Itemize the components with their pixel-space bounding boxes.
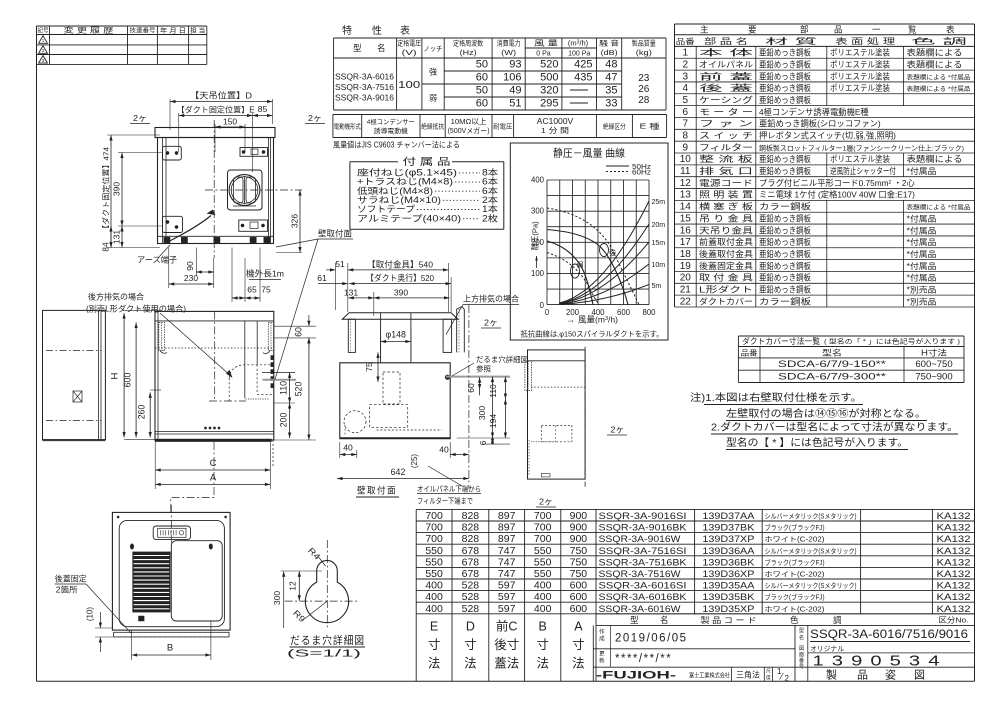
svg-text:E: E [430, 620, 438, 634]
svg-text:注)1.本図は右壁取付仕様を示す。: 注)1.本図は右壁取付仕様を示す。 [690, 391, 862, 404]
svg-text:61: 61 [317, 273, 327, 283]
svg-text:要: 要 [748, 24, 757, 34]
svg-text:フィルター下端まで: フィルター下端まで [417, 496, 473, 506]
svg-text:700: 700 [425, 533, 443, 545]
svg-text:320: 320 [540, 85, 558, 97]
bracket screws [130, 544, 134, 550]
svg-text:B: B [167, 643, 173, 654]
svg-text:蓋法: 蓋法 [494, 657, 519, 671]
svg-text:法: 法 [536, 657, 549, 671]
svg-text:風量(m3/h): 風量(m3/h) [578, 315, 618, 325]
svg-text:富士工業株式会社: 富士工業株式会社 [689, 672, 730, 680]
vertical centerline [213, 120, 215, 258]
svg-text:678: 678 [462, 556, 480, 568]
switch box [153, 526, 190, 540]
svg-text:寸: 寸 [464, 638, 477, 652]
svg-text:電動機形式: 電動機形式 [334, 122, 362, 131]
svg-text:2ヶ: 2ヶ [484, 318, 498, 328]
svg-text:400: 400 [534, 580, 552, 592]
horizontal centerline through duct [205, 189, 302, 191]
svg-text:139D37BK: 139D37BK [702, 523, 755, 534]
vertical size-label cells [415, 614, 417, 682]
svg-text:2ヶ: 2ヶ [539, 497, 553, 507]
svg-text:200: 200 [279, 413, 289, 428]
svg-text:93: 93 [509, 59, 521, 71]
svg-text:ダクトカバー: ダクトカバー [699, 296, 753, 306]
svg-text:排 気 口: 排 気 口 [699, 166, 753, 176]
svg-text:ス イ ッ チ: ス イ ッ チ [699, 131, 753, 141]
svg-text:寸: 寸 [536, 638, 549, 652]
svg-text:C: C [210, 458, 217, 469]
dim 65 75 [231, 248, 233, 303]
svg-text:4極コンデンサ誘導電動機E種: 4極コンデンサ誘導電動機E種 [759, 107, 869, 117]
svg-text:*別売品: *別売品 [907, 296, 937, 306]
svg-text:65: 65 [247, 285, 257, 295]
svg-text:吊 り 金 具: 吊 り 金 具 [699, 213, 753, 223]
side view of hood [317, 259, 528, 506]
svg-text:14: 14 [680, 202, 692, 213]
svg-text:1: 1 [683, 48, 689, 59]
dim 6 wall [457, 437, 510, 439]
svg-text:絶縁抵抗: 絶縁抵抗 [421, 122, 445, 131]
drawing frame right border [974, 24, 976, 681]
svg-text:表題欄による *付属品: 表題欄による *付属品 [907, 85, 971, 93]
svg-text:オイルパネル下端から: オイルパネル下端から [417, 484, 481, 494]
svg-text:131: 131 [344, 288, 358, 298]
svg-text:シルバーメタリック(Sメタリック): シルバーメタリック(Sメタリック) [765, 581, 857, 590]
svg-text:60: 60 [466, 383, 476, 393]
svg-text:整 流 板: 整 流 板 [699, 154, 754, 164]
svg-text:取 付 金 具: 取 付 金 具 [699, 273, 753, 283]
svg-text:528: 528 [462, 603, 480, 615]
svg-text:前 蓋: 前 蓋 [699, 71, 753, 81]
dim C [154, 442, 156, 475]
svg-text:ポリエステル塗装: ポリエステル塗装 [830, 48, 890, 58]
svg-text:150: 150 [223, 117, 237, 127]
svg-text:8: 8 [683, 131, 689, 142]
svg-text:0 Pa: 0 Pa [536, 51, 551, 58]
svg-text:*付属品: *付属品 [907, 237, 937, 247]
svg-text:139D36AA: 139D36AA [702, 546, 755, 557]
earth wire [166, 216, 211, 244]
svg-text:SDCA-6/7/9-150**: SDCA-6/7/9-150** [778, 359, 886, 370]
svg-text:更: 更 [599, 651, 605, 658]
bottom thick edge [340, 437, 450, 439]
svg-text:2019/06/05: 2019/06/05 [615, 633, 688, 645]
svg-text:48: 48 [605, 59, 617, 71]
dim phi148 [380, 330, 382, 360]
svg-text:区分No.: 区分No. [939, 615, 969, 624]
svg-text:75: 75 [364, 362, 374, 372]
svg-text:騒 音: 騒 音 [599, 39, 619, 48]
dim 600 [135, 323, 137, 438]
svg-text:4: 4 [683, 83, 689, 94]
svg-text:642: 642 [391, 467, 406, 477]
svg-text:【取付金具】540: 【取付金具】540 [367, 259, 433, 269]
svg-text:図: 図 [799, 645, 804, 652]
svg-text:5: 5 [683, 95, 689, 106]
svg-text:H: H [110, 372, 121, 379]
svg-text:H寸法: H寸法 [921, 347, 947, 357]
svg-text:(Hz): (Hz) [460, 50, 477, 57]
svg-text:プラグ付ビニル平形コード0.75mm2 ・2心: プラグ付ビニル平形コード0.75mm2 ・2心 [759, 178, 916, 188]
svg-text:435: 435 [574, 72, 592, 84]
bottom plate lines [158, 235, 274, 237]
svg-text:528: 528 [462, 591, 480, 603]
svg-text:ブラック(ブラックFJ): ブラック(ブラックFJ) [765, 593, 825, 602]
svg-text:後方排気の場合: 後方排気の場合 [88, 292, 144, 302]
dim 40 right [449, 442, 451, 458]
svg-text:亜鉛めっき鋼板: 亜鉛めっき鋼板 [759, 154, 812, 164]
upper hanger brackets [163, 146, 182, 160]
dim A [154, 475, 156, 489]
svg-text:カラー鋼板: カラー鋼板 [759, 296, 812, 306]
svg-text:49: 49 [509, 85, 521, 97]
svg-text:139D37XP: 139D37XP [702, 534, 754, 545]
svg-text:(10): (10) [86, 607, 95, 622]
daruma hole mark on bracket [445, 375, 449, 379]
svg-text:2.ダクトカバーは型名によって寸法が異なります。: 2.ダクトカバーは型名によって寸法が異なります。 [711, 421, 958, 434]
left dim 474 [107, 134, 160, 136]
dotted wall below [272, 440, 274, 468]
wall dashdot right view [584, 347, 586, 487]
drawing frame bottom border [37, 680, 975, 682]
bottom dimension table [416, 509, 974, 681]
hidden rear-exhaust elbow dashed [228, 378, 230, 401]
svg-text:作: 作 [599, 628, 605, 636]
dim 642 [337, 478, 469, 480]
svg-text:弱: 弱 [577, 261, 584, 269]
svg-text:****/**/**: ****/**/** [615, 653, 672, 665]
main parts list table [675, 24, 975, 307]
svg-text:2: 2 [683, 59, 689, 70]
svg-text:194: 194 [488, 414, 498, 428]
svg-text:だるま穴詳細図: だるま穴詳細図 [290, 633, 365, 647]
svg-text:15m: 15m [652, 240, 666, 247]
svg-text:597: 597 [498, 603, 516, 615]
svg-text:( 型名の「 * 」には色記号が入ります ): ( 型名の「 * 」には色記号が入ります ) [824, 337, 960, 346]
svg-text:材 質: 材 質 [765, 36, 817, 46]
svg-text:*付属品: *付属品 [907, 213, 937, 223]
svg-text:本 体: 本 体 [699, 48, 755, 58]
svg-text:678: 678 [462, 568, 480, 580]
svg-text:後蓋固定: 後蓋固定 [55, 574, 87, 584]
svg-text:390: 390 [112, 182, 122, 196]
svg-text:ホワイト(C-202): ホワイト(C-202) [765, 571, 825, 579]
svg-text:*付属品: *付属品 [907, 166, 937, 176]
svg-text:528: 528 [462, 580, 480, 592]
svg-text:後 蓋: 後 蓋 [699, 83, 753, 93]
svg-text:強: 強 [429, 67, 437, 77]
svg-text:800: 800 [642, 308, 656, 317]
svg-text:KA132: KA132 [937, 557, 971, 568]
dim 12 [298, 571, 300, 600]
top plate lines front [155, 320, 274, 322]
svg-text:亜鉛めっき鋼板: 亜鉛めっき鋼板 [759, 213, 812, 223]
dim 300 daruma [283, 571, 285, 628]
svg-text:後寸: 後寸 [494, 638, 519, 652]
svg-text:技連番号: 技連番号 [130, 27, 156, 35]
screw dots corners [117, 516, 119, 518]
svg-text:13: 13 [680, 190, 692, 201]
svg-text:表題欄による: 表題欄による [907, 48, 963, 58]
svg-text:47: 47 [605, 72, 617, 84]
svg-text:390: 390 [394, 288, 408, 298]
svg-text:参照: 参照 [476, 364, 491, 374]
svg-text:425: 425 [574, 59, 592, 71]
svg-text:名: 名 [377, 43, 386, 53]
svg-text:法: 法 [572, 657, 585, 671]
svg-text:2: 2 [785, 674, 790, 683]
svg-text:SSQR-3A-6016W: SSQR-3A-6016W [599, 604, 681, 615]
svg-text:品: 品 [857, 669, 868, 682]
svg-text:後蓋取付金具: 後蓋取付金具 [699, 249, 753, 259]
centerline jog to bottom view [171, 442, 214, 512]
sakusei row [610, 625, 612, 648]
front view centerline [214, 311, 216, 401]
dim 40 left [339, 442, 341, 458]
svg-text:110: 110 [279, 381, 289, 395]
svg-text:3: 3 [683, 71, 689, 82]
svg-text:KA132: KA132 [937, 604, 971, 615]
svg-text:400: 400 [531, 176, 545, 185]
svg-text:51: 51 [335, 259, 345, 269]
svg-text:ダクトカバー寸法一覧: ダクトカバー寸法一覧 [742, 336, 820, 346]
svg-text:40: 40 [343, 443, 353, 453]
svg-text:変 更 履 歴: 変 更 履 歴 [64, 26, 114, 35]
koshin row [610, 649, 612, 667]
centerline bottom view [170, 505, 172, 560]
svg-text:担 当: 担 当 [190, 26, 205, 35]
svg-text:0: 0 [545, 308, 550, 317]
dim 60 wall [479, 377, 481, 395]
svg-text:L形ダクト: L形ダクト [699, 285, 753, 295]
svg-text:亜鉛めっき鋼板: 亜鉛めっき鋼板 [759, 83, 812, 93]
svg-text:10m: 10m [652, 262, 666, 269]
svg-text:25m: 25m [652, 199, 666, 206]
svg-text:597: 597 [498, 580, 516, 592]
svg-text:【ダクト固定位置】474: 【ダクト固定位置】474 [101, 147, 111, 233]
svg-text:ポリエステル塗装: ポリエステル塗装 [830, 83, 890, 93]
svg-text:表: 表 [946, 24, 955, 34]
svg-text:747: 747 [498, 545, 516, 557]
svg-text:D: D [466, 620, 475, 634]
svg-text:897: 897 [498, 533, 516, 545]
svg-text:2ヶ: 2ヶ [308, 113, 322, 123]
svg-text:75: 75 [261, 285, 271, 295]
svg-text:16: 16 [680, 225, 692, 236]
svg-text:139D36BK: 139D36BK [702, 557, 755, 568]
svg-text:5m: 5m [652, 283, 662, 290]
wall bracket [457, 307, 465, 353]
svg-text:SSQR-3A-6016SI: SSQR-3A-6016SI [599, 581, 687, 592]
svg-text:天吊り金具: 天吊り金具 [699, 225, 753, 235]
svg-text:性: 性 [372, 24, 382, 37]
top plate side [342, 313, 458, 319]
svg-text:520: 520 [540, 59, 558, 71]
svg-text:耐電圧: 耐電圧 [493, 123, 513, 131]
characteristics table [334, 24, 666, 110]
svg-text:だるま穴詳細図: だるま穴詳細図 [476, 354, 528, 364]
svg-text:1 分 間: 1 分 間 [541, 126, 569, 135]
dim 131 top [373, 292, 375, 316]
svg-text:SSQR-3A-7516: SSQR-3A-7516 [335, 82, 394, 92]
svg-text:調: 調 [833, 615, 842, 625]
dim 200 right [289, 403, 291, 438]
svg-text:(S=1/1): (S=1/1) [287, 648, 361, 660]
svg-text:亜鉛めっき鋼板(シロッコファン): 亜鉛めっき鋼板(シロッコファン) [759, 119, 881, 129]
svg-text:750: 750 [570, 545, 588, 557]
svg-text:消費電力: 消費電力 [497, 39, 521, 48]
dim H [124, 309, 160, 311]
svg-text:新: 新 [599, 657, 605, 665]
svg-text:製品質量: 製品質量 [632, 39, 656, 48]
dim 60 right [274, 325, 316, 327]
centerlines daruma [285, 600, 358, 602]
svg-text:678: 678 [462, 545, 480, 557]
svg-text:静圧(Pa): 静圧(Pa) [530, 221, 540, 251]
svg-text:139D36XP: 139D36XP [702, 569, 754, 580]
svg-text:特: 特 [342, 25, 352, 37]
svg-text:亜鉛めっき鋼板: 亜鉛めっき鋼板 [759, 166, 812, 176]
svg-text:寸: 寸 [428, 638, 441, 652]
right side view [525, 347, 627, 507]
svg-text:600: 600 [570, 603, 588, 615]
svg-text:(kg): (kg) [636, 50, 652, 57]
notes [690, 391, 958, 450]
drain bolt [139, 616, 145, 621]
svg-text:型名の【 * 】には色記号が入ります。: 型名の【 * 】には色記号が入ります。 [726, 436, 908, 449]
hood body outline [158, 138, 274, 244]
wall dash-dot line side view [468, 305, 470, 489]
svg-text:100: 100 [531, 269, 545, 278]
svg-text:(500Vメガー): (500Vメガー) [448, 126, 490, 135]
svg-text:10: 10 [680, 154, 692, 165]
svg-text:オイルパネル: オイルパネル [699, 59, 753, 69]
svg-text:AC1000V: AC1000V [537, 116, 574, 126]
svg-text:型名: 型名 [822, 347, 842, 357]
dim 75 [377, 352, 379, 382]
revision history table [37, 26, 207, 65]
drawing frame left border [36, 26, 38, 681]
svg-text:600: 600 [570, 580, 588, 592]
svg-text:700: 700 [534, 533, 552, 545]
svg-text:897: 897 [498, 510, 516, 522]
svg-text:左壁取付の場合は⑭⑮⑯が対称となる。: 左壁取付の場合は⑭⑮⑯が対称となる。 [726, 407, 926, 420]
svg-text:828: 828 [462, 533, 480, 545]
dim 61 [318, 283, 348, 285]
svg-text:品: 品 [834, 24, 843, 34]
svg-text:400: 400 [534, 591, 552, 603]
svg-text:亜鉛めっき鋼板: 亜鉛めっき鋼板 [759, 249, 812, 259]
svg-text:SSQR-3A-9016W: SSQR-3A-9016W [599, 534, 681, 545]
svg-text:139D35AA: 139D35AA [702, 581, 755, 592]
svg-text:1390534: 1390534 [813, 653, 948, 670]
svg-text:寸: 寸 [572, 638, 585, 652]
svg-text:326: 326 [290, 214, 300, 228]
svg-text:図: 図 [914, 669, 925, 682]
svg-text:ブラック(ブラックFJ): ブラック(ブラックFJ) [765, 523, 825, 532]
svg-text:295: 295 [540, 98, 558, 110]
svg-text:900: 900 [570, 522, 588, 534]
svg-text:131: 131 [112, 230, 122, 244]
svg-text:ノッチ: ノッチ [424, 45, 443, 53]
svg-text:覧: 覧 [908, 24, 917, 34]
svg-text:SSQR-3A-7516W: SSQR-3A-7516W [599, 569, 681, 580]
dim 150 [214, 124, 216, 152]
svg-text:139D37AA: 139D37AA [702, 511, 755, 522]
svg-text:亜鉛めっき鋼板: 亜鉛めっき鋼板 [759, 48, 812, 58]
svg-text:表 面 処 理: 表 面 処 理 [835, 36, 895, 46]
svg-text:名: 名 [660, 615, 669, 625]
svg-text:機外長1m: 機外長1m [246, 269, 284, 279]
svg-text:4極コンデンサー: 4極コンデンサー [367, 117, 415, 126]
svg-text:SSQR-3A-9016SI: SSQR-3A-9016SI [599, 511, 687, 522]
svg-text:*付属品: *付属品 [907, 273, 937, 283]
svg-text:SSQR-3A-6016BK: SSQR-3A-6016BK [599, 592, 688, 603]
wall flange below [114, 632, 229, 637]
svg-text:12: 12 [680, 178, 692, 189]
bottom view of hood [55, 505, 230, 660]
svg-text:(25): (25) [410, 454, 419, 469]
svg-text:ホワイト(C-202): ホワイト(C-202) [765, 605, 825, 613]
svg-text:後蓋固定金具: 後蓋固定金具 [699, 261, 753, 271]
svg-text:ポリエステル塗装: ポリエステル塗装 [830, 71, 890, 81]
lower brackets [163, 216, 183, 232]
svg-text:747: 747 [498, 556, 516, 568]
svg-text:828: 828 [462, 522, 480, 534]
svg-text:主: 主 [700, 24, 709, 34]
svg-text:600: 600 [123, 373, 133, 388]
fujioh logo row [731, 667, 733, 681]
gray reference line [446, 376, 510, 378]
svg-text:KA132: KA132 [937, 511, 971, 522]
svg-text:ホワイト(C-202): ホワイト(C-202) [765, 536, 825, 544]
gray reference line front [263, 379, 297, 381]
left dim 131 [121, 226, 123, 248]
svg-text:897: 897 [498, 522, 516, 534]
svg-text:110: 110 [488, 384, 498, 398]
svg-text:750~900: 750~900 [915, 371, 952, 382]
svg-text:700: 700 [534, 522, 552, 534]
svg-text:21: 21 [680, 285, 692, 296]
svg-text:60: 60 [476, 72, 488, 84]
svg-text:亜鉛めっき鋼板: 亜鉛めっき鋼板 [759, 225, 812, 235]
svg-text:電源コード: 電源コード [699, 178, 753, 188]
wall leader diagonal [275, 239, 318, 380]
oil panel lines [155, 431, 274, 433]
svg-text:表: 表 [400, 24, 410, 37]
svg-text:色: 色 [790, 615, 799, 625]
svg-text:型: 型 [353, 43, 362, 53]
svg-text:定格電圧: 定格電圧 [397, 39, 421, 48]
svg-text:2ヶ: 2ヶ [133, 113, 147, 123]
svg-text:50: 50 [476, 85, 488, 97]
svg-text:KA132: KA132 [937, 534, 971, 545]
dim 300 wall [492, 377, 494, 438]
svg-text:100: 100 [398, 80, 421, 91]
svg-text:40: 40 [439, 445, 449, 455]
left side view [43, 310, 106, 440]
svg-text:逆風防止シャッター付: 逆風防止シャッター付 [830, 166, 896, 176]
accessories box [350, 157, 504, 229]
svg-text:【ダクト奥行】520: 【ダクト奥行】520 [366, 273, 434, 283]
svg-text:550: 550 [534, 556, 552, 568]
svg-text:度: 度 [766, 674, 771, 681]
svg-text:139D35BK: 139D35BK [702, 592, 755, 603]
right dim 326 [276, 252, 302, 254]
svg-text:12: 12 [288, 581, 298, 591]
